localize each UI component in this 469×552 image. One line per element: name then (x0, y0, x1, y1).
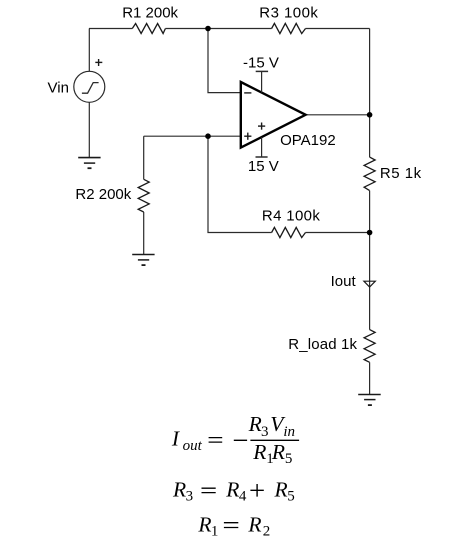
svg-text:-15 V: -15 V (243, 55, 279, 72)
svg-text:OPA192: OPA192 (280, 132, 336, 149)
wire noninverting input (144, 135, 241, 137)
resistor R2 (138, 179, 149, 212)
svg-text:Iout: Iout (331, 273, 357, 290)
resistor R4 (272, 227, 306, 237)
svg-text:R_load 1k: R_load 1k (288, 336, 357, 353)
svg-text:R: R (271, 440, 285, 464)
svg-text:R: R (172, 478, 186, 502)
svg-text:I: I (171, 427, 180, 451)
wire R2 bottom lead (143, 212, 145, 255)
op-amp inverting input mark (244, 92, 251, 94)
junction node output (367, 112, 373, 118)
wire R4 to right column (306, 232, 370, 234)
svg-text:Vin: Vin (48, 79, 69, 96)
op-amp U1 triangle (241, 82, 306, 148)
equation 1: Iout = -R3Vin/(R1R5) (171, 412, 299, 467)
svg-text:R: R (197, 512, 211, 536)
wire right column upper (369, 29, 371, 158)
svg-text:R2 200k: R2 200k (75, 186, 131, 203)
svg-text:R3 100k: R3 100k (259, 4, 318, 21)
svg-text:4: 4 (239, 489, 247, 505)
wire R3 to right column (306, 28, 370, 30)
wire Vin to ground (88, 102, 90, 157)
wire op-amp output (306, 114, 370, 116)
wire mid column upper (top node to inverting input) (208, 29, 240, 93)
op-amp positive supply pin (256, 137, 268, 157)
svg-text:out: out (183, 438, 203, 454)
wire top-left horizontal (89, 28, 132, 30)
resistor R3 (272, 23, 306, 33)
op-amp negative supply pin (256, 71, 268, 92)
equation 2: R3 = R4 + R5 (172, 478, 295, 505)
svg-text:R1 200k: R1 200k (122, 4, 178, 21)
junction node noninverting (205, 133, 211, 139)
wire mid column lower (noninv node down to R4) (208, 136, 272, 232)
wire left column down to Vin (88, 29, 90, 72)
svg-text:R: R (225, 478, 239, 502)
svg-text:5: 5 (285, 451, 293, 467)
ground (R2) (132, 255, 154, 266)
svg-text:5: 5 (287, 489, 295, 505)
junction node top (R1/R3/inverting) (205, 26, 211, 32)
op-amp V+ mark (258, 123, 265, 130)
plus sign of Vin (95, 59, 102, 66)
resistor R_load (364, 330, 375, 363)
Iout current arrow (364, 281, 375, 287)
svg-text:R: R (247, 512, 261, 536)
wire right column middle through Iout arrow (369, 191, 371, 330)
resistor R5 (364, 157, 375, 191)
ground (Vin) (78, 158, 100, 169)
voltage source Vin (74, 71, 105, 102)
junction node R4/R5 (367, 230, 373, 236)
svg-text:R: R (274, 478, 288, 502)
svg-text:2: 2 (263, 524, 271, 540)
svg-text:R: R (252, 440, 266, 464)
svg-text:15 V: 15 V (248, 158, 279, 175)
svg-text:R: R (248, 412, 262, 436)
svg-text:R4 100k: R4 100k (262, 207, 320, 224)
wire R1 to R3 (165, 28, 271, 30)
svg-text:in: in (283, 424, 295, 440)
svg-text:1: 1 (211, 524, 219, 540)
ground (R_load) (358, 395, 381, 406)
wire R_load to ground (369, 362, 371, 394)
op-amp noninverting input mark (244, 133, 251, 140)
resistor R1 (132, 24, 165, 34)
svg-text:3: 3 (186, 489, 194, 505)
wire R2 top lead (143, 136, 145, 179)
svg-text:3: 3 (261, 424, 269, 440)
svg-text:R5 1k: R5 1k (380, 165, 422, 182)
equation 3: R1 = R2 (197, 512, 270, 539)
